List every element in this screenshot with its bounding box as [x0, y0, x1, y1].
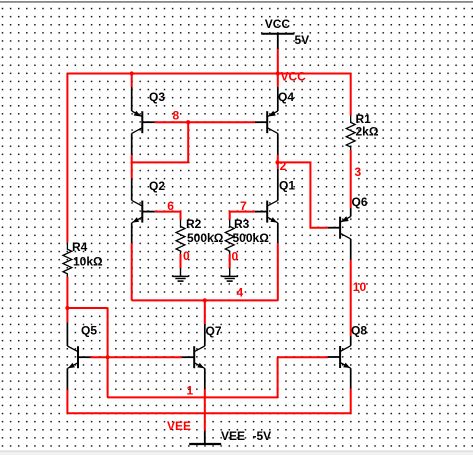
transistor Q1 (NPN)	[255, 169, 278, 243]
wire net 1 to Q8 base	[278, 356, 328, 358]
wire R2 bottom to ground	[180, 254, 182, 268]
svg-text:R4: R4	[72, 240, 88, 254]
svg-text:500kΩ: 500kΩ	[187, 231, 224, 245]
svg-text:VEE: VEE	[167, 419, 191, 433]
svg-text:5V: 5V	[295, 33, 310, 47]
svg-text:0: 0	[232, 250, 239, 264]
svg-text:-5V: -5V	[253, 429, 272, 443]
wire Q4 collector to node 2	[277, 155, 279, 169]
junction Q3 emitter / VCC rail	[130, 71, 134, 75]
wire net 1 riser to Q8 base	[277, 357, 279, 397]
svg-text:VCC: VCC	[265, 17, 291, 31]
bottom panel strip	[0, 451, 473, 452]
svg-text:Q2: Q2	[149, 179, 165, 193]
svg-text:6: 6	[167, 199, 174, 213]
wire Q5 base to Q7 base	[90, 356, 182, 358]
wire R1 to Q6 emitter (node 3)	[350, 150, 352, 208]
junction VCC supply / VCC rail	[276, 71, 280, 75]
wire Q1 emitter to node 4	[277, 243, 279, 300]
wire VCC rail corner to R1	[350, 74, 352, 116]
wire left drop to R4	[66, 74, 68, 243]
wire Q6 collector to Q8 collector (node 10)	[350, 260, 352, 336]
svg-text:500kΩ: 500kΩ	[233, 231, 270, 245]
wire VEE rail	[67, 412, 350, 414]
resistor R2 500kΩ	[176, 220, 185, 255]
svg-text:Q5: Q5	[81, 324, 97, 338]
transistor Q3 (PNP)	[132, 87, 155, 155]
junction Q5-Q7 base / bias column	[106, 355, 110, 359]
wire Q3 collector / Q2 collector	[131, 155, 133, 179]
svg-text:VEE: VEE	[221, 429, 245, 443]
wire VCC supply drop	[277, 49, 279, 87]
resistor R4 10kΩ	[63, 242, 72, 276]
transistor Q6 (PNP)	[328, 208, 351, 260]
junction node 4 / Q7 collector	[203, 298, 207, 302]
transistor Q5 (NPN)	[67, 322, 90, 389]
svg-text:Q1: Q1	[279, 179, 295, 193]
wire R4 bottom to node 1 junction	[66, 277, 68, 308]
wire R3 bottom to ground	[229, 254, 231, 268]
svg-text:10: 10	[353, 280, 367, 294]
svg-text:0: 0	[183, 249, 190, 263]
wire node 4 horizontal	[132, 299, 278, 301]
wire Q3 collector to node 8	[131, 161, 189, 163]
wire node 8 vertical	[187, 122, 189, 162]
wire Q5 emitter drop	[66, 390, 68, 414]
wire Q7 emitter to VEE supply	[204, 389, 206, 431]
svg-text:4: 4	[237, 286, 244, 300]
resistor R3 500kΩ	[225, 220, 234, 255]
wire bias column vertical	[107, 308, 109, 397]
svg-text:Q6: Q6	[352, 195, 368, 209]
wire node 2 to Q6 base	[278, 162, 328, 227]
svg-text:1: 1	[187, 384, 194, 398]
wire node 8 horizontal (Q3 base to Q4 base)	[155, 121, 255, 123]
svg-text:R3: R3	[234, 217, 250, 231]
transistor Q8 (NPN)	[328, 336, 351, 389]
junction node 2	[275, 160, 279, 164]
svg-text:Q8: Q8	[351, 324, 367, 338]
power symbol VCC 5V	[261, 34, 294, 49]
wire node 1 junction to bias column	[67, 307, 107, 309]
svg-text:2: 2	[280, 159, 287, 173]
ground node 0 under R3	[221, 268, 238, 281]
transistor Q4 (PNP)	[255, 87, 278, 155]
svg-text:Q3: Q3	[149, 90, 165, 104]
transistor Q2 (NPN)	[132, 179, 155, 244]
top window border	[0, 0, 473, 1]
power symbol VEE -5V	[189, 431, 221, 444]
svg-text:VCC: VCC	[281, 70, 307, 84]
resistor R1 2kΩ	[346, 116, 355, 151]
svg-text:7: 7	[240, 199, 247, 213]
svg-text:10kΩ: 10kΩ	[73, 255, 103, 269]
wire net 1 rail	[108, 396, 278, 398]
wire Q8 emitter drop	[350, 389, 352, 414]
transistor Q7 (NPN)	[182, 324, 205, 389]
svg-text:R2: R2	[186, 217, 202, 231]
wire Q5 collector stub	[66, 308, 68, 322]
svg-text:8: 8	[173, 108, 180, 122]
svg-text:Q4: Q4	[278, 90, 294, 104]
wire Q3 emitter to rail	[131, 74, 133, 88]
svg-text:3: 3	[355, 165, 362, 179]
svg-text:2kΩ: 2kΩ	[356, 125, 379, 139]
wire node 6 (Q2 base to R2)	[155, 212, 181, 220]
svg-text:Q7: Q7	[206, 324, 222, 338]
ground node 0 under R2	[172, 268, 189, 281]
wire Q7 collector to node 4	[204, 300, 206, 324]
wire node 7 (Q1 base to R3)	[230, 212, 255, 220]
wire VCC rail top	[67, 73, 350, 75]
junction node 8	[186, 120, 190, 124]
wire Q2 emitter to node 4	[131, 243, 133, 300]
junction node 1 / R4 / Q5 collector	[65, 306, 69, 310]
